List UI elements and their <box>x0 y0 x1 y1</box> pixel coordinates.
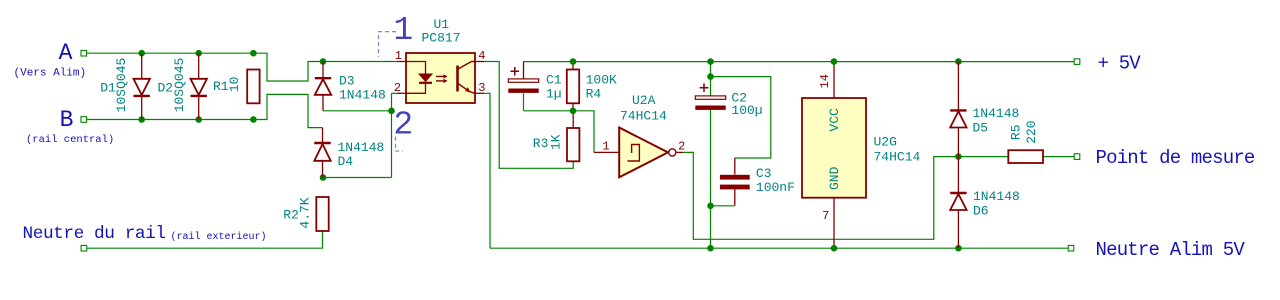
svg-text:4: 4 <box>478 49 485 63</box>
svg-text:D6: D6 <box>973 203 989 218</box>
svg-text:(rail central): (rail central) <box>26 134 114 146</box>
svg-text:U2G: U2G <box>874 134 897 149</box>
svg-text:GND: GND <box>827 166 842 190</box>
svg-text:10SQ045: 10SQ045 <box>114 58 129 113</box>
svg-text:10SQ045: 10SQ045 <box>172 58 187 113</box>
svg-text:R5: R5 <box>1009 124 1024 140</box>
svg-text:1K: 1K <box>549 134 564 150</box>
svg-text:10: 10 <box>227 76 242 92</box>
svg-text:D5: D5 <box>973 120 989 135</box>
svg-text:1: 1 <box>393 12 413 49</box>
svg-text:R3: R3 <box>533 136 549 151</box>
svg-text:D2: D2 <box>158 81 174 96</box>
svg-text:VCC: VCC <box>827 108 842 132</box>
svg-text:D4: D4 <box>338 154 354 169</box>
svg-text:74HC14: 74HC14 <box>620 108 667 123</box>
svg-text:1N4148: 1N4148 <box>973 106 1020 121</box>
svg-text:14: 14 <box>818 74 832 88</box>
svg-text:(rail exterieur): (rail exterieur) <box>171 231 267 243</box>
svg-text:2: 2 <box>393 107 413 144</box>
svg-text:PC817: PC817 <box>422 31 461 46</box>
svg-text:B: B <box>60 107 74 133</box>
svg-text:U2A: U2A <box>632 93 656 108</box>
svg-text:D3: D3 <box>339 73 355 88</box>
svg-text:100K: 100K <box>586 72 617 87</box>
svg-text:1µ: 1µ <box>546 86 562 101</box>
svg-text:1N4148: 1N4148 <box>339 87 386 102</box>
svg-text:R4: R4 <box>586 87 602 102</box>
svg-text:Point de mesure: Point de mesure <box>1096 147 1255 169</box>
svg-text:(Vers Alim): (Vers Alim) <box>14 68 87 80</box>
svg-text:2: 2 <box>678 139 685 153</box>
svg-text:220: 220 <box>1024 120 1039 143</box>
svg-text:C3: C3 <box>756 166 772 181</box>
svg-text:1: 1 <box>395 49 402 63</box>
svg-text:3: 3 <box>478 81 485 95</box>
svg-text:1N4148: 1N4148 <box>973 189 1020 204</box>
svg-text:2: 2 <box>394 81 401 95</box>
svg-text:100nF: 100nF <box>756 180 795 195</box>
svg-text:Neutre du rail: Neutre du rail <box>23 224 166 244</box>
svg-text:100µ: 100µ <box>731 103 762 118</box>
svg-text:7: 7 <box>822 209 829 223</box>
svg-text:C1: C1 <box>546 72 562 87</box>
svg-text:+ 5V: + 5V <box>1098 53 1142 75</box>
svg-text:74HC14: 74HC14 <box>874 150 921 165</box>
svg-text:4.7K: 4.7K <box>298 197 313 228</box>
svg-text:1: 1 <box>602 140 609 154</box>
svg-text:1N4148: 1N4148 <box>338 140 385 155</box>
svg-text:A: A <box>59 40 73 66</box>
svg-text:Neutre Alim 5V: Neutre Alim 5V <box>1096 239 1246 261</box>
